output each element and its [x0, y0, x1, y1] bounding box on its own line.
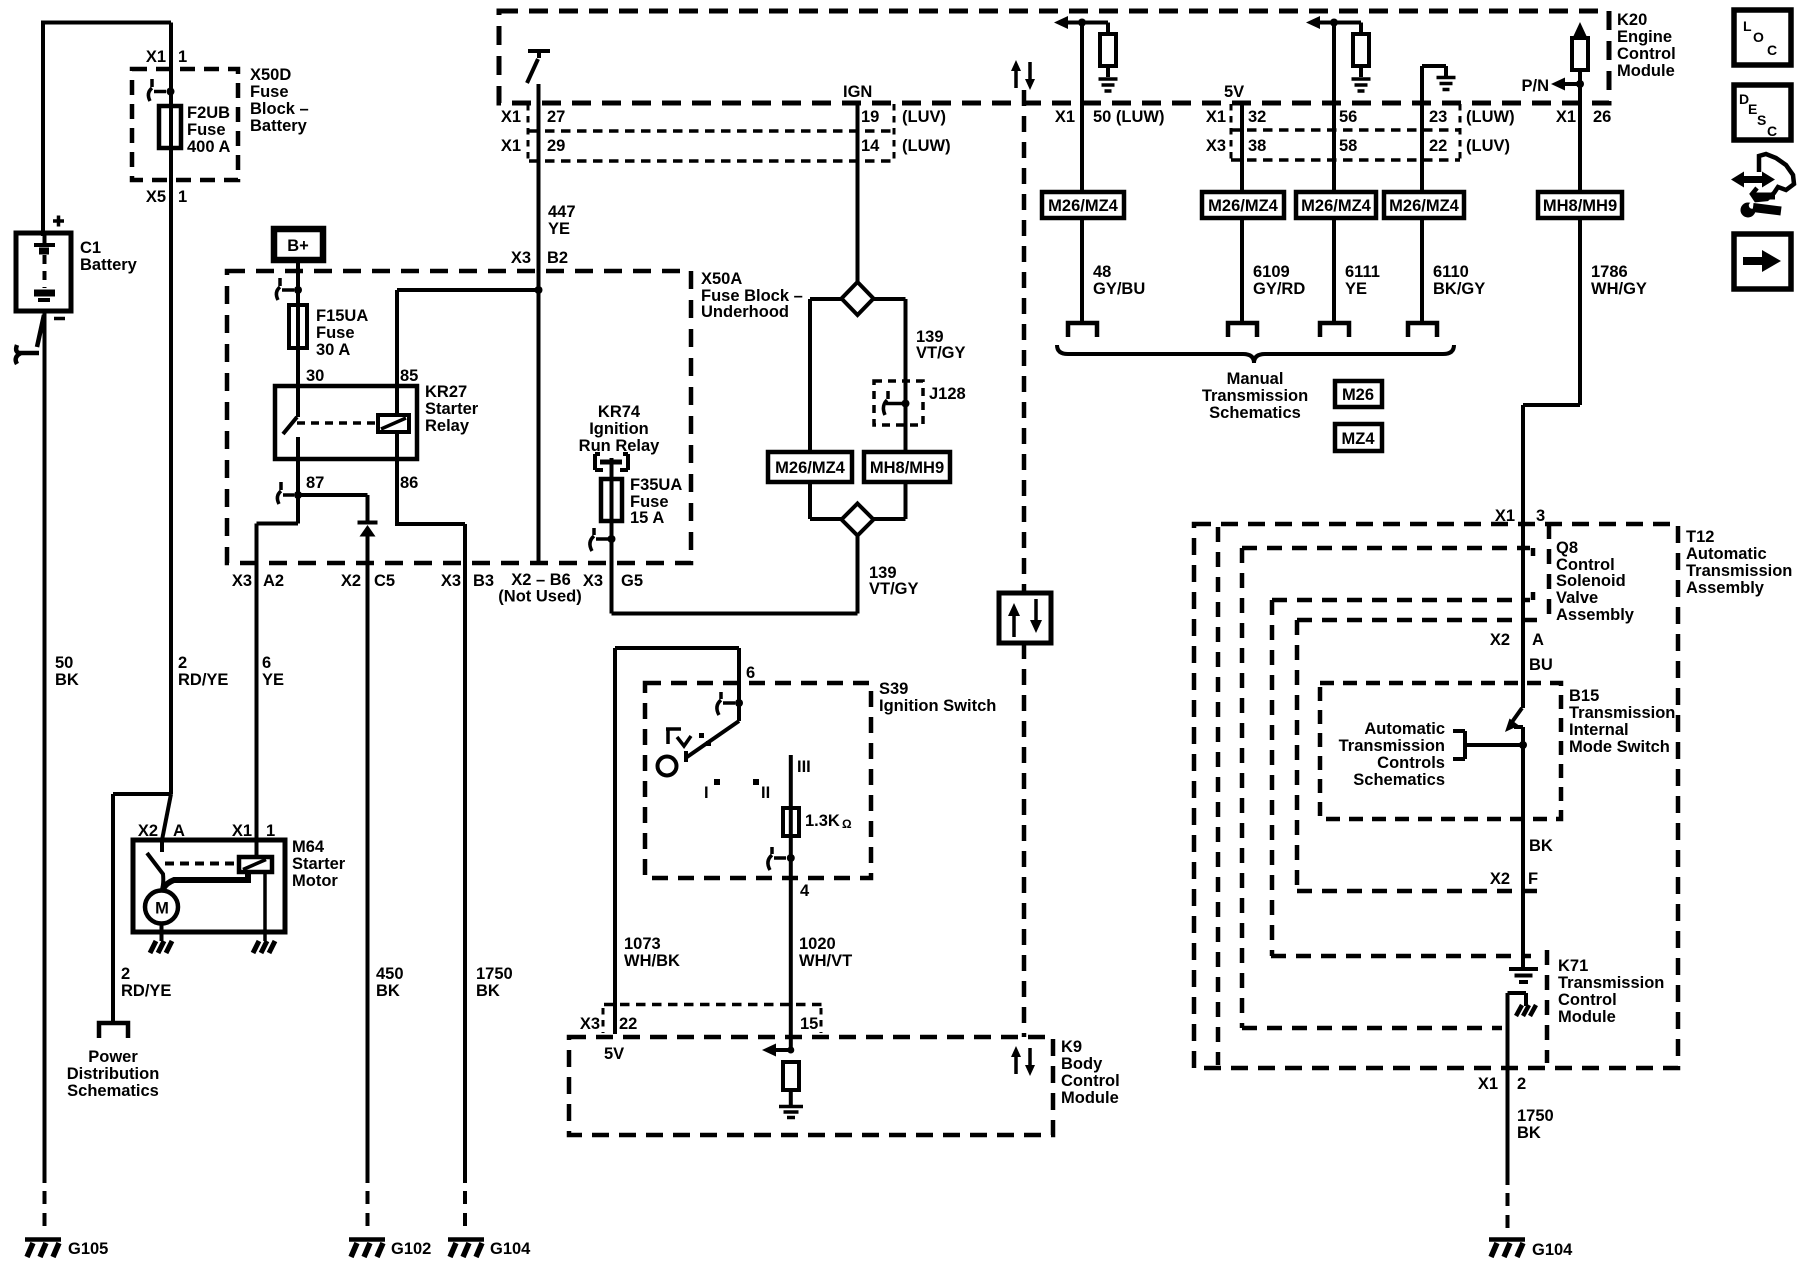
svg-text:G102: G102 — [391, 1240, 431, 1258]
battery C1 — [16, 233, 71, 311]
svg-text:Starter: Starter — [292, 855, 346, 873]
svg-text:(LUW): (LUW) — [902, 137, 951, 155]
svg-text:WH/VT: WH/VT — [799, 952, 852, 970]
relay KR74 symbol — [595, 454, 628, 470]
junction dot relay87 clip — [294, 491, 302, 499]
relay KR27 pin87 stub — [296, 437, 300, 459]
terminal col4 — [1408, 323, 1437, 337]
svg-text:2: 2 — [121, 965, 130, 983]
diode symbol — [358, 521, 378, 525]
brace manual transmission — [1057, 345, 1454, 363]
col3 arrow and load resistor — [1319, 23, 1361, 35]
svg-text:G104: G104 — [1532, 1241, 1573, 1259]
svg-text:Automatic: Automatic — [1364, 720, 1445, 738]
svg-text:26: 26 — [1593, 108, 1611, 126]
svg-text:RD/YE: RD/YE — [178, 671, 228, 689]
svg-text:15 A: 15 A — [630, 509, 664, 527]
svg-text:X3: X3 — [511, 249, 531, 267]
svg-text:450: 450 — [376, 965, 404, 983]
svg-text:23: 23 — [1429, 108, 1447, 126]
reference box M26 — [1335, 381, 1382, 407]
wire 1750 BK B3 to G104 — [463, 563, 467, 1183]
svg-text:Module: Module — [1617, 62, 1675, 80]
svg-text:X1: X1 — [1556, 108, 1576, 126]
svg-text:S39: S39 — [879, 680, 908, 698]
wire battery positive loop — [43, 23, 171, 237]
svg-text:Q8: Q8 — [1556, 539, 1578, 557]
svg-text:Block –: Block – — [250, 100, 309, 118]
svg-text:X2: X2 — [138, 822, 158, 840]
svg-text:M: M — [155, 900, 169, 918]
svg-text:Starter: Starter — [425, 400, 479, 418]
svg-text:1786: 1786 — [1591, 263, 1628, 281]
svg-text:S: S — [1757, 112, 1766, 128]
svg-text:6: 6 — [746, 664, 755, 682]
ground G105 — [25, 1240, 61, 1258]
sidebar arrow box — [1734, 234, 1791, 289]
splice diamond lower — [842, 504, 874, 536]
svg-text:M26: M26 — [1342, 386, 1374, 404]
connector clip below F35UA — [590, 528, 608, 551]
connector J128 dashed box — [874, 381, 923, 425]
svg-text:22: 22 — [1429, 137, 1447, 155]
svg-text:Control: Control — [1558, 991, 1617, 1009]
svg-text:Module: Module — [1061, 1089, 1119, 1107]
svg-text:Underhood: Underhood — [701, 303, 789, 321]
svg-text:F35UA: F35UA — [630, 476, 682, 494]
wire 87 branch to diode C5 — [298, 495, 368, 521]
svg-text:KR27: KR27 — [425, 383, 467, 401]
svg-text:G104: G104 — [490, 1240, 531, 1258]
svg-text:X2: X2 — [1490, 870, 1510, 888]
B15 switch contact — [1514, 725, 1523, 729]
svg-text:6109: 6109 — [1253, 263, 1290, 281]
sidebar harness icon outline — [1752, 154, 1794, 200]
svg-text:2: 2 — [178, 654, 187, 672]
svg-text:G5: G5 — [621, 572, 643, 590]
svg-text:Power: Power — [88, 1048, 138, 1066]
K71 right dashed edge — [1545, 950, 1550, 1063]
wire 139 loop left — [810, 299, 842, 519]
svg-text:Transmission: Transmission — [1558, 974, 1664, 992]
col1 arrow and load resistor — [1067, 23, 1108, 35]
wire 6111 YE — [1332, 23, 1336, 323]
fuse block X50A dashed box — [227, 271, 691, 563]
svg-text:MH8/MH9: MH8/MH9 — [870, 459, 944, 477]
svg-text:I: I — [704, 784, 709, 802]
svg-text:(LUW): (LUW) — [1466, 108, 1515, 126]
starter M64 motor chassis ground — [150, 941, 172, 953]
svg-text:1: 1 — [266, 822, 275, 840]
svg-text:M26/MZ4: M26/MZ4 — [775, 459, 846, 477]
S39 position dot I — [714, 779, 720, 785]
wire label box M26/MZ4 loop — [768, 452, 852, 482]
svg-text:Ignition Switch: Ignition Switch — [879, 697, 996, 715]
svg-text:F2UB: F2UB — [187, 104, 230, 122]
svg-text:Valve: Valve — [1556, 589, 1598, 607]
svg-text:5V: 5V — [1224, 83, 1244, 101]
svg-text:Distribution: Distribution — [67, 1065, 160, 1083]
svg-text:F: F — [1528, 870, 1538, 888]
svg-text:30: 30 — [306, 367, 324, 385]
junction dot S39 pin4 — [787, 854, 795, 862]
ground G104 left — [448, 1240, 484, 1258]
svg-text:Transmission: Transmission — [1686, 562, 1792, 580]
svg-text:29: 29 — [547, 137, 565, 155]
svg-text:C1: C1 — [80, 239, 101, 257]
battery minus sign — [54, 317, 65, 321]
J128 clip symbol — [883, 391, 903, 415]
svg-text:Automatic: Automatic — [1686, 545, 1767, 563]
wire label box MH8/MH9 loop — [864, 452, 950, 482]
svg-text:Assembly: Assembly — [1556, 606, 1635, 624]
S39 switch circle — [658, 757, 677, 776]
svg-text:Transmission: Transmission — [1202, 387, 1308, 405]
connector clip S39 pin4 — [768, 847, 786, 870]
svg-text:1750: 1750 — [476, 965, 513, 983]
ground G104 right — [1489, 1240, 1525, 1258]
svg-text:GY/RD: GY/RD — [1253, 280, 1305, 298]
wire 87 to A2 — [257, 524, 299, 564]
ignition switch S39 dashed box — [645, 683, 871, 878]
svg-text:1750: 1750 — [1517, 1107, 1554, 1125]
svg-text:6: 6 — [262, 654, 271, 672]
svg-text:T12: T12 — [1686, 528, 1714, 546]
wire label box MH8/MH9 — [1538, 192, 1622, 218]
T12 outer dashed box — [1194, 524, 1678, 1068]
svg-text:38: 38 — [1248, 137, 1266, 155]
svg-text:X3: X3 — [232, 572, 252, 590]
svg-text:C: C — [1767, 42, 1777, 58]
svg-text:5V: 5V — [604, 1045, 624, 1063]
svg-text:3: 3 — [1536, 507, 1545, 525]
svg-text:(Not Used): (Not Used) — [498, 588, 581, 606]
svg-text:Schematics: Schematics — [67, 1082, 159, 1100]
relay KR27 dashed link — [297, 421, 378, 425]
wire B+ to F15UA — [296, 260, 300, 386]
svg-text:22: 22 — [619, 1015, 637, 1033]
svg-text:6111: 6111 — [1345, 263, 1380, 281]
reference box MZ4 — [1335, 424, 1382, 451]
terminal col2 — [1228, 323, 1257, 337]
svg-text:Battery: Battery — [250, 117, 308, 135]
BCM pulldown resistor — [783, 1062, 799, 1090]
BCM updown arrows — [1011, 1046, 1035, 1076]
wire 48 GY/BU — [1080, 23, 1084, 323]
svg-text:L: L — [1743, 18, 1752, 34]
svg-text:BK: BK — [55, 671, 79, 689]
S39 position dot II — [753, 779, 759, 785]
svg-text:50 (LUW): 50 (LUW) — [1093, 108, 1165, 126]
relay KR27 pin86 stub — [395, 432, 399, 459]
junction dot F15UA clip — [294, 286, 302, 294]
T12 inner dashed box 2 — [1216, 527, 1221, 1065]
wire 50 BK battery negative to G105 — [43, 311, 47, 1183]
svg-text:Fuse: Fuse — [250, 83, 289, 101]
wire BCM 22 to S39 pin6 — [615, 648, 739, 1034]
connector row lines ECM left — [529, 131, 894, 161]
inner dashed box 5 — [1297, 620, 1547, 891]
svg-text:Transmission: Transmission — [1569, 704, 1675, 722]
svg-text:X1: X1 — [1495, 507, 1515, 525]
terminal col3 — [1320, 323, 1349, 337]
starter M64 solenoid coil — [239, 857, 272, 872]
starter motor M64 box — [133, 840, 285, 932]
relay KR27 coil — [378, 415, 409, 432]
ground G102 — [349, 1240, 385, 1258]
svg-text:K71: K71 — [1558, 957, 1588, 975]
connector separator dashes ECM left — [527, 104, 530, 161]
svg-text:Relay: Relay — [425, 417, 470, 435]
svg-text:III: III — [797, 758, 811, 776]
svg-text:Body: Body — [1061, 1055, 1103, 1073]
svg-text:447: 447 — [548, 203, 576, 221]
svg-text:YE: YE — [1345, 280, 1367, 298]
wire label boxes M26/MZ4 row — [1042, 192, 1124, 218]
svg-text:Internal: Internal — [1569, 721, 1629, 739]
svg-text:2: 2 — [1517, 1075, 1526, 1093]
connector clip at F2UB — [148, 79, 166, 101]
sidebar wrench icon — [1741, 203, 1756, 218]
svg-text:4: 4 — [800, 882, 810, 900]
resistor col1 — [1100, 34, 1116, 66]
junction dot F35UA clip — [608, 535, 616, 543]
col4 internal ground — [1422, 66, 1446, 76]
svg-text:B2: B2 — [547, 249, 568, 267]
svg-text:A: A — [1532, 631, 1544, 649]
ground col1 — [1099, 79, 1118, 91]
svg-text:C5: C5 — [374, 572, 395, 590]
box4 bottom dashed line — [1271, 954, 1531, 959]
svg-text:32: 32 — [1248, 108, 1266, 126]
terminal power distribution — [99, 1023, 128, 1038]
svg-text:X3: X3 — [1206, 137, 1226, 155]
dashed net line ECM to BCM — [1022, 90, 1027, 593]
svg-text:X2: X2 — [341, 572, 361, 590]
wire into starter motor X2-A — [162, 794, 171, 840]
starter M64 motor circle — [145, 891, 178, 924]
J128 junction dot — [902, 400, 910, 408]
battery plus sign — [53, 216, 64, 227]
wire 6 YE A2 to starter X1-1 — [255, 563, 259, 840]
svg-text:Control: Control — [1061, 1072, 1120, 1090]
S39 resistor 1.3K — [783, 808, 799, 836]
svg-text:1: 1 — [178, 188, 187, 206]
svg-text:Fuse: Fuse — [316, 324, 355, 342]
svg-text:(LUV): (LUV) — [902, 108, 946, 126]
svg-text:Fuse: Fuse — [187, 121, 226, 139]
svg-text:B3: B3 — [473, 572, 494, 590]
ECM ignition symbol — [527, 51, 550, 83]
box3 bottom dashed line — [1242, 1026, 1502, 1031]
svg-text:Battery: Battery — [80, 256, 138, 274]
Q8 dashed box lines — [1242, 548, 1533, 556]
svg-text:BK/GY: BK/GY — [1433, 280, 1485, 298]
wire branch to power distribution — [113, 794, 171, 1022]
wire 450 BK C5 to G102 — [366, 536, 370, 1183]
starter M64 motor ground stub — [160, 924, 164, 942]
svg-text:400 A: 400 A — [187, 138, 231, 156]
svg-text:G105: G105 — [68, 1240, 108, 1258]
wire battery feed through F2UB down to junction — [169, 23, 173, 795]
starter M64 thick contact wire — [163, 872, 248, 889]
svg-text:F15UA: F15UA — [316, 307, 368, 325]
svg-text:O: O — [1753, 29, 1764, 45]
svg-text:(LUV): (LUV) — [1466, 137, 1510, 155]
BCM ground — [779, 1107, 803, 1118]
battery cable clip — [16, 315, 44, 364]
svg-text:M64: M64 — [292, 838, 325, 856]
svg-text:Transmission: Transmission — [1339, 737, 1445, 755]
sidebar DESC box — [1734, 85, 1791, 140]
sidebar harness icon double arrow — [1741, 176, 1764, 183]
B+ box — [274, 229, 323, 260]
svg-text:M26/MZ4: M26/MZ4 — [1301, 197, 1372, 215]
svg-text:B+: B+ — [287, 237, 309, 255]
wire ECM X1-27/29 to 447YE — [537, 84, 541, 563]
starter M64 coil chassis ground — [253, 941, 275, 953]
svg-text:C: C — [1767, 123, 1777, 139]
svg-text:1.3K: 1.3K — [805, 812, 840, 830]
svg-text:J128: J128 — [929, 385, 966, 403]
svg-text:48: 48 — [1093, 263, 1111, 281]
S39 resistor leg — [789, 755, 793, 1050]
svg-text:X1: X1 — [1206, 108, 1226, 126]
svg-text:X1: X1 — [146, 48, 166, 66]
B15 mode switch dashed box — [1320, 683, 1561, 819]
wire 1786 WH/GY — [1523, 218, 1580, 708]
svg-text:6110: 6110 — [1433, 263, 1469, 281]
svg-text:X1: X1 — [501, 108, 521, 126]
svg-text:MZ4: MZ4 — [1342, 430, 1376, 448]
connector clip at relay87 — [277, 482, 294, 504]
S39 switch blade — [686, 721, 739, 762]
svg-text:YE: YE — [548, 220, 570, 238]
B15 switch arrow — [1512, 708, 1522, 722]
fuse F2UB 400A — [159, 106, 181, 148]
svg-text:K9: K9 — [1061, 1038, 1082, 1056]
svg-text:Assembly: Assembly — [1686, 579, 1765, 597]
wire IGN from ECM — [856, 103, 860, 282]
wire relay86 to B3 — [397, 459, 465, 563]
svg-text:GY/BU: GY/BU — [1093, 280, 1145, 298]
svg-text:56: 56 — [1339, 108, 1357, 126]
svg-text:Module: Module — [1558, 1008, 1616, 1026]
svg-text:27: 27 — [547, 108, 565, 126]
svg-text:X50A: X50A — [701, 270, 742, 288]
fuse block X50D dashed box — [132, 69, 238, 180]
svg-text:Controls: Controls — [1377, 754, 1445, 772]
svg-text:VT/GY: VT/GY — [916, 344, 966, 362]
terminal col1 — [1068, 323, 1097, 337]
svg-text:II: II — [761, 784, 770, 802]
K71 sensor ground — [1509, 969, 1538, 982]
svg-text:KR74: KR74 — [598, 403, 641, 421]
svg-text:VT/GY: VT/GY — [869, 580, 919, 598]
svg-text:X2 – B6: X2 – B6 — [511, 571, 571, 589]
wire 139 VT/GY lower — [612, 536, 858, 614]
svg-text:IGN: IGN — [843, 83, 872, 101]
splice diamond upper — [842, 282, 874, 315]
relay KR27 pin30 stub and blade — [283, 386, 298, 434]
svg-text:A: A — [173, 822, 185, 840]
svg-text:Motor: Motor — [292, 872, 338, 890]
connector clip at F15UA — [276, 278, 294, 300]
wire 447YE branch to relay85 — [397, 290, 539, 386]
connector row lines ECM right — [1231, 130, 1460, 160]
svg-text:Schematics: Schematics — [1209, 404, 1301, 422]
bracket to controls schematics — [1453, 731, 1523, 759]
BCM connector row dotted — [604, 1003, 822, 1007]
svg-text:M26/MZ4: M26/MZ4 — [1389, 197, 1460, 215]
wire relay87 down — [296, 459, 300, 524]
starter M64 dashed link — [165, 862, 239, 866]
svg-text:YE: YE — [262, 671, 284, 689]
relay KR27 pin85 stub — [395, 386, 399, 415]
svg-text:Ignition: Ignition — [589, 420, 649, 438]
svg-text:X3: X3 — [441, 572, 461, 590]
svg-text:Manual: Manual — [1227, 370, 1284, 388]
svg-text:1020: 1020 — [799, 935, 836, 953]
svg-text:Ω: Ω — [842, 817, 852, 831]
svg-text:B15: B15 — [1569, 687, 1599, 705]
BCM signal arrow — [772, 1048, 791, 1052]
svg-text:WH/GY: WH/GY — [1591, 280, 1647, 298]
svg-text:BK: BK — [476, 982, 500, 1000]
K71 top dashed line — [1297, 889, 1543, 894]
wire 6110 BK/GY — [1420, 66, 1424, 322]
svg-text:1: 1 — [178, 48, 187, 66]
starter M64 X1-1 stub — [255, 840, 259, 857]
svg-text:87: 87 — [306, 474, 324, 492]
junction dot F2UB clip — [167, 88, 175, 96]
wire mode switch to ground — [1521, 727, 1525, 968]
svg-text:30 A: 30 A — [316, 341, 350, 359]
starter M64 switch blade — [147, 840, 163, 891]
col5 up arrow and resistor — [1578, 35, 1582, 38]
svg-text:BU: BU — [1529, 656, 1553, 674]
svg-text:86: 86 — [400, 474, 418, 492]
svg-text:WH/BK: WH/BK — [624, 952, 680, 970]
P/N arrow — [1565, 82, 1580, 86]
svg-text:BK: BK — [1529, 837, 1553, 855]
svg-text:K20: K20 — [1617, 11, 1647, 29]
wire 6109 GY/RD 5V — [1240, 103, 1244, 322]
svg-text:X1: X1 — [232, 822, 252, 840]
fuse F35UA 15A — [601, 479, 622, 521]
junction dot B15 — [1519, 741, 1527, 749]
svg-text:RD/YE: RD/YE — [121, 982, 171, 1000]
svg-text:M26/MZ4: M26/MZ4 — [1208, 197, 1279, 215]
relay KR27 box — [275, 386, 417, 459]
wire KR74 G5 leg — [610, 458, 614, 614]
svg-text:14: 14 — [861, 137, 880, 155]
svg-text:Schematics: Schematics — [1353, 771, 1445, 789]
svg-text:Engine: Engine — [1617, 28, 1672, 46]
svg-text:X3: X3 — [580, 1015, 600, 1033]
svg-text:15: 15 — [800, 1015, 818, 1033]
junction dot 447YE branch — [535, 286, 543, 294]
BCM K9 dashed box — [569, 1037, 1053, 1135]
wire 1750 BK to G104 — [1506, 1006, 1510, 1185]
svg-text:85: 85 — [400, 367, 418, 385]
svg-text:P/N: P/N — [1521, 77, 1549, 95]
sidebar LOC box — [1734, 10, 1791, 65]
junction dot S39 pin6 — [735, 699, 743, 707]
svg-text:M26/MZ4: M26/MZ4 — [1048, 197, 1119, 215]
starter M64 coil ground stub — [263, 872, 267, 941]
svg-text:1073: 1073 — [624, 935, 661, 953]
